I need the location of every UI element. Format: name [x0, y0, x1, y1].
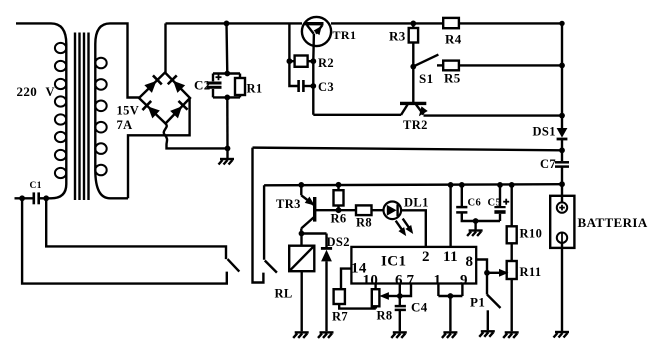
wire C2/R1 bottom node [213, 96, 240, 98]
ground DS2 [318, 332, 334, 338]
ground P1 [479, 331, 495, 337]
node R5 right junction [559, 63, 565, 69]
node C5 rail [497, 182, 503, 188]
wire mid rail [264, 184, 562, 185]
trimmer R8 wiper arrow [379, 292, 399, 300]
ground R11 [503, 332, 519, 338]
node C6/C5 ground junction [473, 218, 479, 224]
node S1 pivot [410, 64, 416, 70]
node DS1 bottom junction [559, 147, 565, 153]
resistor R3 [409, 23, 418, 66]
node R2 right [310, 58, 316, 64]
wire right column [561, 23, 563, 128]
node pin 11 rail [448, 182, 454, 188]
node pins 6/7 wiper junction [397, 293, 403, 299]
svg-text:C4: C4 [411, 300, 428, 315]
svg-text:C7: C7 [540, 157, 556, 171]
wire TR1 emitter to TR2 collector [313, 114, 401, 116]
wire TR2 emitter to DS1 column [424, 114, 563, 116]
capacitor C4 [395, 306, 406, 331]
transformer T1 core [75, 33, 89, 201]
svg-text:11: 11 [443, 249, 458, 265]
node P1/R11 wiper junction [484, 270, 490, 276]
wire TR3 base [315, 209, 339, 211]
wire secondary top lead to bridge [110, 23, 139, 97]
wire pins 1/9 tie bar [438, 295, 462, 297]
relay coil RL [289, 234, 314, 332]
bridge diode D-d (bottom-right) [170, 101, 188, 119]
node TR3 emitter bottom junction [299, 231, 305, 237]
battery BATTERIA [550, 184, 574, 332]
IC op-amp IC1 [351, 247, 476, 284]
node C3 right [310, 83, 316, 89]
svg-text:TR2: TR2 [403, 118, 428, 132]
wire C2/R1 top node [213, 72, 240, 74]
node pins 1/9 junction [448, 293, 454, 299]
wire R2/C3 left branch [289, 23, 298, 86]
svg-text:8: 8 [466, 254, 474, 270]
capacitor C3 [299, 80, 314, 92]
svg-text:R8: R8 [377, 309, 393, 323]
capacitor C7 [555, 162, 569, 184]
svg-text:C3: C3 [318, 80, 334, 94]
node R10 rail [509, 182, 515, 188]
node R2 left [287, 58, 293, 64]
node C1 right [43, 195, 49, 201]
bridge rectifier diamond [139, 73, 190, 124]
node R6 bottom [336, 207, 342, 213]
wire bridge top vertex to + rail [164, 23, 166, 72]
ground battery [554, 332, 570, 338]
svg-text:2: 2 [422, 249, 430, 265]
svg-text:220: 220 [17, 84, 38, 99]
svg-text:S1: S1 [419, 71, 434, 86]
svg-text:P1: P1 [470, 295, 485, 310]
wire IC1 pin 11 to mid rail [449, 185, 451, 247]
svg-text:C1: C1 [30, 181, 42, 191]
ground RL [293, 332, 309, 338]
ground pins 1/9 [442, 332, 458, 338]
wire IC1 pin 6 down [399, 284, 401, 306]
capacitor C1 [15, 192, 49, 204]
node C2/R1 bottom [224, 95, 230, 101]
svg-text:R10: R10 [520, 227, 543, 241]
resistor R6 [334, 185, 344, 210]
diode DS2 [321, 234, 332, 332]
node TR2 emitter junction [559, 113, 565, 119]
trimmer R8 [372, 289, 380, 308]
transformer T1 primary winding [49, 43, 67, 198]
svg-text:V: V [46, 85, 55, 99]
transistor TR1 [302, 17, 331, 115]
svg-text:R2: R2 [318, 56, 334, 70]
svg-text:DS1: DS1 [533, 125, 556, 139]
transformer T1 secondary winding [95, 23, 128, 198]
wire bridge minus with crossing hop [164, 124, 228, 149]
svg-text:R1: R1 [247, 82, 263, 96]
node mid rail right end [559, 181, 565, 187]
svg-text:TR3: TR3 [276, 197, 301, 211]
potentiometer P1 open lever [487, 273, 501, 330]
wire mains top lead [16, 23, 66, 44]
resistor R2 [289, 56, 313, 67]
bridge diode D-a (top-left) [144, 75, 162, 93]
trimmer R11 [507, 261, 517, 331]
wire C1 right to upper contact run [46, 198, 226, 259]
wire C2/R1 top feed [225, 23, 228, 73]
wire IC1 pin 9 down [461, 284, 463, 297]
transistor TR3 [301, 185, 317, 234]
diode DS1 [557, 128, 568, 161]
svg-text:IC1: IC1 [381, 254, 406, 270]
ground C4 [391, 332, 407, 338]
node rail to R3 [410, 21, 416, 27]
wire pins 1/9 to ground [449, 296, 451, 331]
svg-text:15V: 15V [117, 104, 140, 118]
svg-text:BATTERIA: BATTERIA [578, 215, 648, 230]
svg-text:9: 9 [460, 273, 468, 289]
node C2/R1 top [224, 71, 230, 77]
capacitor C2 [207, 74, 222, 98]
svg-text:R8: R8 [356, 216, 372, 230]
wire IC1 pin 7 down [400, 284, 411, 297]
wire top rail middle [331, 22, 443, 24]
capacitor C6 [456, 185, 500, 221]
wire rail R4 to corner [459, 22, 562, 24]
transistor TR2 [400, 103, 428, 118]
wire long horizontal DS1 net [253, 148, 563, 151]
resistor R8 (series LED) [339, 205, 384, 215]
wire secondary bottom lead to bridge [128, 98, 190, 198]
svg-text:R11: R11 [520, 265, 542, 279]
wire IC1 pin 1 down [437, 284, 439, 297]
wire TR3 emitter to DS2 [302, 232, 327, 234]
svg-text:R5: R5 [444, 71, 461, 86]
wire S1 node to TR2 base [412, 67, 414, 102]
resistor R10 [507, 185, 517, 261]
svg-text:R6: R6 [331, 212, 347, 226]
node rail corner [559, 21, 564, 26]
resistor R1 [235, 74, 245, 98]
node C6 rail [459, 182, 465, 188]
resistor R4 [443, 18, 459, 28]
svg-text:R7: R7 [332, 310, 348, 324]
svg-text:DL1: DL1 [404, 196, 429, 210]
wire DS1 net down-leg (left long riser) [253, 148, 264, 283]
svg-text:C5: C5 [488, 198, 502, 209]
svg-text:RL: RL [275, 287, 293, 301]
svg-text:C6: C6 [468, 198, 482, 209]
svg-text:DS2: DS2 [327, 235, 350, 249]
node rail to C2/R1 [224, 21, 230, 27]
ground C6/C5 [467, 221, 483, 236]
node TR3 emitter top [298, 182, 304, 188]
wire IC1 pin 10 to trimmer R8 [374, 284, 376, 290]
LED DL1 [384, 202, 417, 239]
svg-text:R4: R4 [445, 32, 462, 47]
node C1 left [19, 195, 25, 201]
svg-text:7A: 7A [117, 118, 133, 132]
wire top rail left [166, 22, 303, 24]
resistor R5 [437, 61, 562, 71]
switch S1 lever [416, 55, 439, 66]
capacitor C5 [494, 185, 509, 221]
relay contact RL-B lever [265, 261, 277, 273]
wire DL1 cathode to IC1 pin 2 [401, 210, 426, 247]
svg-text:R3: R3 [389, 29, 406, 44]
bridge diode D-b (top-right) [168, 75, 186, 93]
trimmer R11 wiper arrow [487, 269, 509, 277]
svg-text:C2: C2 [194, 78, 211, 93]
relay contact RL-A lever [228, 259, 240, 272]
wire C2/R1 bottom to ground junction [226, 97, 229, 148]
ground G1 bridge minus [219, 148, 235, 164]
wire IC1 pin 14 to R7 [341, 269, 351, 290]
bridge diode D-c (bottom-left) [142, 101, 160, 119]
wire IC1 pin 8 to P1 node [476, 260, 487, 273]
relay contact RL-B fixed lead from mid rail [263, 185, 265, 259]
wire C1 left to lower contact run [22, 198, 227, 283]
svg-text:TR1: TR1 [333, 28, 357, 42]
node bridge minus junction [225, 146, 231, 152]
resistor R7 [334, 289, 376, 308]
node R6 top [336, 182, 342, 188]
